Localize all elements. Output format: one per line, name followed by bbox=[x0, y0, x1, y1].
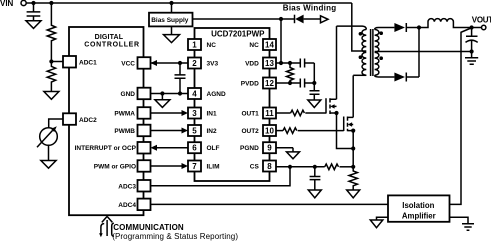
wire PWM GPIO to ILIM bbox=[151, 163, 189, 169]
pin 9 PGND bbox=[263, 142, 276, 153]
capacitor C_in bbox=[27, 3, 41, 21]
pin INTERRUPT or OCP bbox=[138, 142, 151, 154]
svg-text:3: 3 bbox=[192, 109, 197, 118]
svg-text:8: 8 bbox=[267, 162, 272, 171]
svg-text:GND: GND bbox=[121, 91, 136, 98]
node bias junction bbox=[279, 17, 283, 21]
node junction pin13 bias bbox=[279, 61, 283, 65]
pin 7 ILIM bbox=[188, 161, 201, 172]
resistor R_g2 gate bbox=[283, 128, 297, 134]
svg-text:ADC1: ADC1 bbox=[79, 60, 97, 67]
pin ADC3 bbox=[138, 180, 151, 192]
svg-text:13: 13 bbox=[265, 59, 274, 68]
svg-text:CONTROLLER: CONTROLLER bbox=[84, 42, 140, 49]
pin 1 NC bbox=[188, 39, 201, 50]
svg-text:Amplifier: Amplifier bbox=[402, 211, 436, 220]
svg-text:DIGITAL: DIGITAL bbox=[95, 34, 124, 41]
node junction CS sense bbox=[351, 165, 355, 169]
transistor Q2 bbox=[344, 117, 356, 133]
wire top VIN rail bbox=[26, 2, 351, 4]
ground output earth bbox=[465, 52, 478, 65]
ground C_cs bbox=[308, 190, 321, 198]
pin ADC4 bbox=[138, 199, 151, 211]
svg-text:11: 11 bbox=[265, 109, 274, 118]
svg-text:14: 14 bbox=[265, 41, 274, 50]
svg-text:VOUT: VOUT bbox=[472, 15, 491, 24]
pin 2 3V3 bbox=[188, 58, 201, 69]
wire communication down arrow bbox=[99, 224, 104, 238]
temperature sensor RT1 bbox=[37, 126, 57, 147]
wire communication brace bbox=[112, 223, 114, 236]
node junction C2 bottom bbox=[178, 91, 182, 95]
wire OUT2 bbox=[276, 130, 283, 132]
svg-text:9: 9 bbox=[267, 144, 272, 153]
bias supply U3 box bbox=[149, 3, 193, 26]
node junction VOUT bbox=[470, 25, 474, 29]
node junction R13 bottom bbox=[288, 81, 292, 85]
wire primary bottom lead bbox=[353, 74, 366, 76]
svg-text:ADC3: ADC3 bbox=[118, 183, 136, 190]
op-amp U4 isolation amplifier box bbox=[388, 195, 450, 221]
svg-text:VIN: VIN bbox=[0, 0, 14, 8]
capacitor C2 3V3 decoupling bbox=[175, 63, 186, 94]
svg-text:IN1: IN1 bbox=[207, 111, 218, 118]
transformer T1 primary bbox=[362, 30, 366, 76]
wire VCC to 3V3 bbox=[151, 60, 189, 66]
svg-text:5: 5 bbox=[192, 127, 197, 136]
wire GND to AGND bbox=[151, 93, 189, 95]
diode D1 rectifier bbox=[394, 23, 419, 32]
node junction Rdivider bbox=[49, 1, 53, 5]
pin PWMB bbox=[138, 125, 151, 137]
svg-text:PGND: PGND bbox=[240, 145, 259, 152]
svg-text:UCD7201PWP: UCD7201PWP bbox=[211, 30, 265, 39]
svg-text:VDD: VDD bbox=[245, 61, 259, 68]
svg-text:NC: NC bbox=[249, 42, 259, 49]
wire VDD pin13 bbox=[276, 62, 300, 64]
wire Q2 drain riser bbox=[352, 75, 354, 117]
pin ADC2 bbox=[63, 113, 76, 125]
wire ADC2 to sensor bbox=[49, 119, 63, 128]
ground PGND bbox=[287, 148, 300, 159]
svg-text:Isolation: Isolation bbox=[402, 201, 434, 210]
transistor Q1 bbox=[326, 98, 339, 115]
svg-text:ADC4: ADC4 bbox=[118, 202, 136, 209]
wire secondary center tap return bbox=[375, 51, 472, 53]
ground sensor bbox=[41, 145, 56, 168]
capacitor C_out bbox=[466, 28, 478, 52]
node junction AGND ground bbox=[160, 91, 164, 95]
capacitor C13 VDD bbox=[300, 59, 314, 68]
wire Q2 source to CS node bbox=[352, 131, 354, 167]
pin 3 IN1 bbox=[188, 108, 201, 119]
wire gate Q1 bbox=[305, 112, 326, 114]
pin ADC1 bbox=[63, 56, 76, 68]
connector bias winding arrow bbox=[321, 16, 329, 23]
pin 12 PVDD bbox=[263, 78, 276, 89]
svg-text:(Programming & Status Reportin: (Programming & Status Reporting) bbox=[112, 232, 238, 241]
svg-text:Bias Winding: Bias Winding bbox=[283, 3, 337, 12]
ground amp right earth bbox=[462, 224, 474, 230]
svg-text:6: 6 bbox=[192, 144, 197, 153]
node junction rectifier output bbox=[417, 25, 421, 29]
inductor L1 bbox=[419, 19, 481, 28]
wire amp lower right bbox=[450, 217, 469, 224]
svg-text:VCC: VCC bbox=[121, 61, 135, 68]
node phase dot secondary top bbox=[379, 31, 383, 35]
svg-text:CS: CS bbox=[250, 164, 260, 171]
resistor R_sense bbox=[349, 167, 357, 190]
svg-text:INTERRUPT or OCP: INTERRUPT or OCP bbox=[75, 145, 137, 152]
wire Q1 source to node bbox=[337, 113, 354, 149]
node junction C_in bbox=[31, 1, 35, 5]
wire Q1 drain riser bbox=[336, 26, 338, 99]
wire PGND bbox=[276, 147, 293, 149]
svg-text:ILIM: ILIM bbox=[207, 164, 220, 171]
node phase dot primary bottom bbox=[359, 55, 363, 59]
wire VOUT feedback bbox=[450, 28, 472, 204]
wire CS bbox=[276, 166, 325, 168]
pin 11 OUT1 bbox=[263, 108, 276, 119]
node junction cap rail bbox=[312, 81, 316, 85]
svg-text:12: 12 bbox=[265, 79, 274, 88]
node ADC1 tap junction bbox=[49, 59, 53, 63]
wire PVDD pin12 bbox=[276, 82, 300, 84]
ground bias supply bbox=[164, 26, 180, 42]
resistor R2 input divider bbox=[47, 62, 55, 92]
resistor R_cs filter bbox=[325, 164, 339, 170]
wire communication up arrow bbox=[102, 216, 113, 236]
svg-text:OLF: OLF bbox=[207, 145, 220, 152]
svg-text:PWMA: PWMA bbox=[114, 111, 135, 118]
transformer core bbox=[371, 29, 373, 76]
svg-text:COMMUNICATION: COMMUNICATION bbox=[113, 223, 184, 232]
resistor R1 input divider bbox=[47, 3, 55, 62]
IC U1 UCD7201PWP box bbox=[195, 28, 270, 181]
pin 5 IN2 bbox=[188, 125, 201, 136]
resistor R_g1 gate bbox=[291, 110, 305, 116]
diode D2 rectifier bbox=[394, 28, 419, 82]
svg-text:7: 7 bbox=[192, 162, 197, 171]
capacitor C12 PVDD bbox=[300, 79, 314, 88]
wire primary top lead bbox=[337, 26, 367, 29]
node junction output return bbox=[470, 49, 474, 53]
node phase dot secondary bottom bbox=[379, 56, 383, 60]
svg-text:2: 2 bbox=[192, 59, 197, 68]
node phase dot primary top bbox=[359, 32, 363, 36]
capacitor C_cs filter bbox=[310, 167, 321, 190]
wire secondary top lead bbox=[375, 28, 395, 30]
transformer T1 secondary bbox=[375, 30, 379, 76]
wire PWMB to IN2 bbox=[151, 128, 189, 134]
ground AGND bbox=[155, 94, 170, 108]
wire bias supply to VDD node bbox=[193, 18, 295, 20]
svg-text:3V3: 3V3 bbox=[207, 61, 219, 68]
node junction CS cap bbox=[313, 165, 317, 169]
node junction sources bbox=[351, 146, 355, 150]
wire OUT1 bbox=[276, 112, 291, 114]
wire PWMA to IN1 bbox=[151, 110, 189, 116]
wire VIN drop to primary center tap bbox=[352, 3, 367, 51]
ground R2 bbox=[44, 92, 59, 100]
node VOUT terminal bbox=[482, 25, 486, 29]
resistor R13 VDD-PVDD bbox=[287, 63, 294, 83]
pin PWM or GPIO bbox=[138, 160, 151, 172]
wire tap to ADC1 bbox=[51, 61, 63, 63]
pin 13 VDD bbox=[263, 58, 276, 69]
wire amp lower left bbox=[377, 217, 389, 220]
svg-text:10: 10 bbox=[265, 127, 274, 136]
node junction bias supply bbox=[169, 1, 173, 5]
pin GND bbox=[138, 88, 151, 100]
pin 14 NC bbox=[263, 39, 276, 50]
svg-text:AGND: AGND bbox=[207, 91, 226, 98]
wire secondary bottom lead bbox=[375, 75, 395, 77]
wire ADC3 to CS net bbox=[151, 167, 291, 186]
ground C4 bbox=[308, 100, 321, 108]
pin 4 AGND bbox=[188, 88, 201, 99]
capacitor C4 bypass bbox=[310, 91, 320, 100]
svg-text:ADC2: ADC2 bbox=[79, 117, 97, 124]
svg-text:OUT1: OUT1 bbox=[241, 111, 259, 118]
svg-text:4: 4 bbox=[192, 90, 197, 99]
wire ADC4 to isolation amplifier bbox=[151, 203, 389, 205]
svg-text:1: 1 bbox=[192, 41, 197, 50]
pin VCC bbox=[138, 57, 151, 68]
svg-text:PVDD: PVDD bbox=[241, 81, 259, 88]
svg-text:Bias Supply: Bias Supply bbox=[151, 17, 189, 24]
wire bias riser to VDD bbox=[280, 19, 282, 63]
diode D3 bias bbox=[295, 15, 321, 24]
wire cap common rail bbox=[313, 63, 315, 91]
pin PWMA bbox=[138, 107, 151, 119]
pin 8 CS bbox=[263, 161, 276, 172]
svg-text:IN2: IN2 bbox=[207, 128, 218, 135]
svg-text:PWMB: PWMB bbox=[114, 128, 135, 135]
ground R_sense bbox=[347, 190, 360, 198]
node junction R13 top bbox=[288, 61, 292, 65]
wire OLF to INTERRUPT bbox=[151, 145, 189, 151]
pin 6 OLF bbox=[188, 142, 201, 153]
node junction CS-ADC3 bbox=[288, 165, 292, 169]
digital controller U2 box bbox=[69, 27, 144, 215]
svg-text:OUT2: OUT2 bbox=[241, 128, 259, 135]
wire gate Q2 bbox=[298, 130, 344, 132]
svg-text:PWM or GPIO: PWM or GPIO bbox=[94, 164, 136, 171]
node junction C2 top bbox=[178, 61, 182, 65]
node VIN terminal bbox=[21, 0, 26, 5]
ground C_in bbox=[26, 21, 41, 29]
svg-text:NC: NC bbox=[207, 42, 217, 49]
pin 10 OUT2 bbox=[263, 125, 276, 136]
wire R_cs to sense node bbox=[340, 166, 354, 168]
ground amp left bbox=[370, 220, 383, 228]
